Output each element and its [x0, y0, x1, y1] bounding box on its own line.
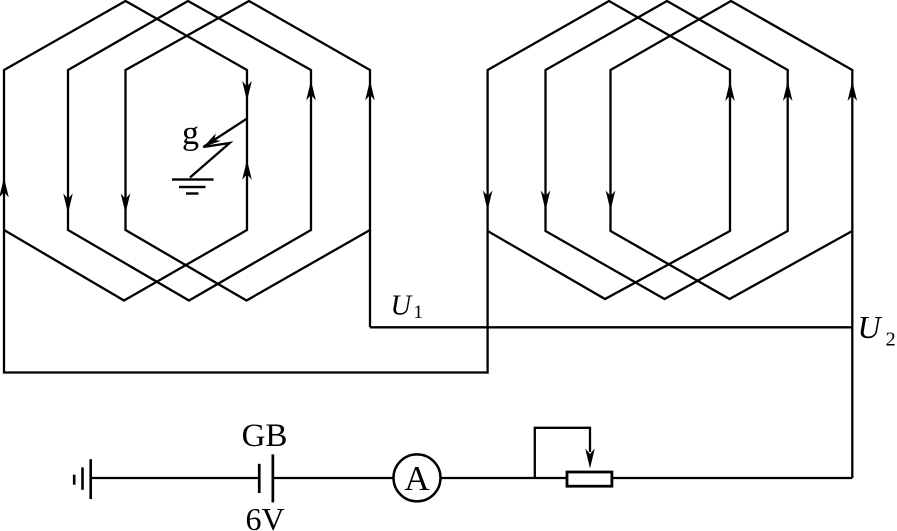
ammeter A circle — [394, 454, 441, 501]
current arrow up on secondary mid-right vertical — [783, 81, 793, 101]
wire: bottom, earth to battery — [91, 477, 260, 479]
battery GB: short plate (negative) — [258, 464, 261, 493]
wire: U1-U2 horizontal line — [370, 326, 852, 328]
current arrow down on secondary inner-left vertical — [606, 191, 616, 211]
svg-text:1: 1 — [414, 302, 424, 323]
current arrow down on secondary mid-left vertical — [541, 191, 551, 211]
primary coil L1 turn 1 (outer-left to inner-right) — [4, 1, 247, 301]
current arrow up on primary outer-left vertical — [0, 178, 9, 198]
spark gap g zigzag (lightning bolt) — [190, 119, 246, 178]
current arrow up on primary outer-right vertical — [365, 80, 375, 100]
svg-text:A: A — [404, 459, 430, 498]
earth terminal at far left: tall bar — [89, 459, 92, 499]
wire: primary outer-right terminal down to U1 line — [369, 230, 371, 327]
secondary coil L2 turn 2 — [546, 1, 788, 299]
current arrow up on secondary outer-right vertical — [848, 81, 858, 101]
svg-text:U: U — [391, 291, 414, 322]
svg-text:6V: 6V — [245, 501, 284, 531]
battery GB: long plate (positive) — [272, 454, 275, 502]
ground symbol inside spark gap: bar 3 — [186, 192, 199, 194]
secondary coil L2 turn 3 (inner-left to outer-right) — [611, 1, 853, 299]
ground symbol inside spark gap: bar 2 — [179, 186, 206, 188]
svg-text:g: g — [182, 115, 199, 152]
current arrow down on secondary outer-left vertical — [483, 191, 493, 211]
wire: bottom, ammeter to rheostat — [441, 477, 567, 479]
primary coil L1 turn 2 — [68, 1, 311, 301]
rheostat wiper wire — [535, 428, 590, 478]
current arrow down on primary inner-left vertical — [121, 193, 131, 213]
earth terminal: short bar — [73, 475, 76, 485]
wire: secondary outer-right terminal down to bottom circuit — [851, 231, 853, 478]
wire: bottom, battery to ammeter — [273, 477, 393, 479]
current arrow up on primary mid-right vertical — [306, 80, 316, 100]
svg-text:U: U — [858, 309, 883, 345]
rheostat R body — [567, 472, 612, 486]
secondary coil L2 turn 1 (outer-left to inner-right) — [488, 1, 730, 299]
primary coil L1 turn 3 (inner-left to outer-right) — [126, 1, 371, 301]
svg-text:GB: GB — [242, 418, 288, 454]
rheostat wiper arrowhead — [585, 449, 595, 469]
spark gap arrowhead on lightning bolt — [203, 133, 221, 147]
current arrow up on primary inner-right vertical (mid) — [242, 160, 252, 180]
svg-text:2: 2 — [886, 329, 896, 351]
earth terminal: middle bar — [81, 467, 84, 489]
current arrow up on secondary inner-right vertical — [725, 81, 735, 101]
current arrow down on primary inner-right vertical (top) — [242, 81, 252, 101]
ground symbol inside spark gap: bar 1 — [172, 178, 214, 180]
wire: bottom, rheostat to right riser — [613, 477, 852, 479]
current arrow down on primary mid-left vertical — [63, 193, 73, 213]
wire: primary outer-left terminal down, across, up to secondary outer-left — [4, 230, 488, 373]
